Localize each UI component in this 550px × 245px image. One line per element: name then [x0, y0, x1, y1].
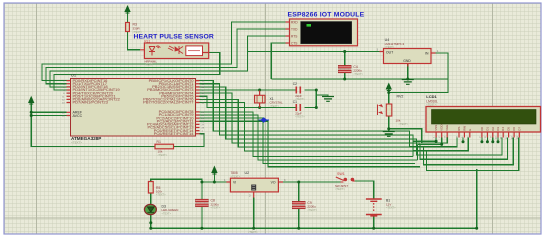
svg-text:<TEXT>: <TEXT>: [158, 153, 168, 157]
svg-text:VO: VO: [271, 181, 276, 185]
svg-text:U2: U2: [245, 171, 250, 175]
svg-text:RTS: RTS: [291, 34, 297, 38]
svg-text:<TEXT>: <TEXT>: [399, 122, 409, 126]
svg-text:<TEXT>: <TEXT>: [144, 63, 154, 67]
svg-text:R1: R1: [157, 140, 161, 144]
svg-text:LCD1: LCD1: [426, 94, 437, 99]
svg-text:OUT: OUT: [386, 50, 393, 54]
svg-text:D0: D0: [480, 127, 484, 131]
svg-text:PB7/TOSC2/XTAL2/PCINT7: PB7/TOSC2/XTAL2/PCINT7: [143, 100, 194, 105]
svg-text:RV2: RV2: [397, 94, 404, 98]
svg-text:E: E: [468, 129, 472, 131]
svg-text:TXD: TXD: [291, 27, 298, 31]
svg-text:RS: RS: [457, 127, 461, 131]
svg-text:VEE: VEE: [445, 125, 449, 131]
svg-text:330R: 330R: [133, 26, 141, 30]
svg-text:VSS: VSS: [434, 125, 438, 131]
svg-text:<TEXT>: <TEXT>: [162, 211, 172, 215]
svg-text:<TEXT>: <TEXT>: [248, 230, 258, 234]
svg-text:2200u: 2200u: [353, 69, 362, 73]
svg-text:<TEXT>: <TEXT>: [295, 115, 305, 118]
svg-text:SW1: SW1: [337, 172, 345, 176]
svg-text:VDD: VDD: [440, 124, 444, 131]
svg-text:<TEXT>: <TEXT>: [353, 72, 363, 76]
svg-text:D5: D5: [507, 127, 511, 131]
svg-text:RXD: RXD: [291, 20, 298, 24]
svg-text:VI: VI: [233, 181, 236, 185]
svg-text:D3: D3: [496, 127, 500, 131]
svg-text:PC6/RESET/PCINT14: PC6/RESET/PCINT14: [154, 131, 195, 136]
svg-text:AVCC: AVCC: [73, 114, 83, 118]
svg-text:<TEXT>: <TEXT>: [335, 187, 345, 191]
svg-text:D1: D1: [485, 127, 489, 131]
svg-text:<TEXT>: <TEXT>: [211, 206, 221, 210]
svg-text:ESP8266 IOT MODULE: ESP8266 IOT MODULE: [288, 11, 365, 18]
svg-text:10k: 10k: [396, 119, 401, 123]
svg-text:<TEXT>: <TEXT>: [71, 141, 82, 145]
svg-text:<TEXT>: <TEXT>: [307, 208, 317, 212]
svg-text:GND: GND: [403, 59, 411, 63]
svg-text:U1: U1: [71, 73, 77, 78]
svg-text:D4: D4: [501, 127, 505, 131]
svg-text:PD7/AIN1/PCINT23: PD7/AIN1/PCINT23: [73, 100, 109, 105]
svg-text:<TEXT>: <TEXT>: [386, 206, 396, 210]
svg-text:2200u: 2200u: [211, 202, 220, 206]
svg-text:CTS: CTS: [291, 41, 297, 45]
svg-text:RW: RW: [462, 126, 466, 131]
svg-text:C1: C1: [293, 100, 297, 104]
svg-text:2200u: 2200u: [307, 204, 316, 208]
svg-text:D6: D6: [512, 127, 516, 131]
svg-text:D2: D2: [491, 127, 495, 131]
svg-text:<TEXT>: <TEXT>: [156, 193, 166, 197]
svg-text:<TEXT>: <TEXT>: [270, 104, 280, 108]
svg-text:C2: C2: [293, 82, 297, 86]
svg-text:D7: D7: [517, 127, 521, 131]
svg-text:IN: IN: [425, 52, 429, 56]
